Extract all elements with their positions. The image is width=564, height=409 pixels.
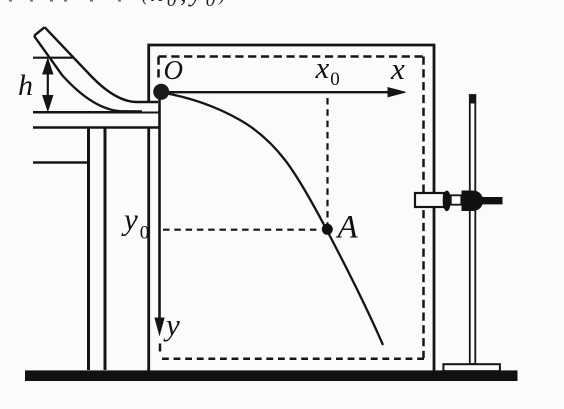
table crossbar [33,161,88,164]
launcher shaft [451,195,462,204]
stand rod [469,95,476,365]
ball at O [153,84,169,100]
dashed screen border bottom [159,358,425,361]
svg-text:O: O [164,55,184,85]
dashed line x0 down to A [326,98,328,224]
svg-text:y: y [163,307,180,342]
svg-text:h: h [18,69,33,102]
svg-text:x: x [390,51,405,86]
svg-text:A: A [336,210,359,246]
point A [322,224,333,235]
dashed screen border top [159,55,425,58]
table leg right [104,127,107,371]
trajectory curve (parabola) [162,93,383,346]
table leg left [87,127,90,371]
dashed screen border left upper segment [157,57,160,83]
h reference line [33,57,73,59]
board frame (vertical screen board) [149,45,434,371]
dashed screen border right [422,57,425,359]
dashed screen border left lower segment [159,344,162,352]
caption text sliver (cut off at top) [9,0,229,11]
h measuring arrow (double headed) [43,59,53,111]
dashed line y0 right to A [163,229,320,231]
y axis [155,95,164,335]
x axis [168,88,406,97]
ground (thick black line) [25,370,518,381]
clamp (black) [462,191,503,212]
ramp chute [34,27,158,111]
tabletop slab [33,110,160,129]
stand base [443,364,500,371]
launcher body (white cylinder) [415,193,444,207]
launcher ring (black ellipse) [443,191,451,212]
